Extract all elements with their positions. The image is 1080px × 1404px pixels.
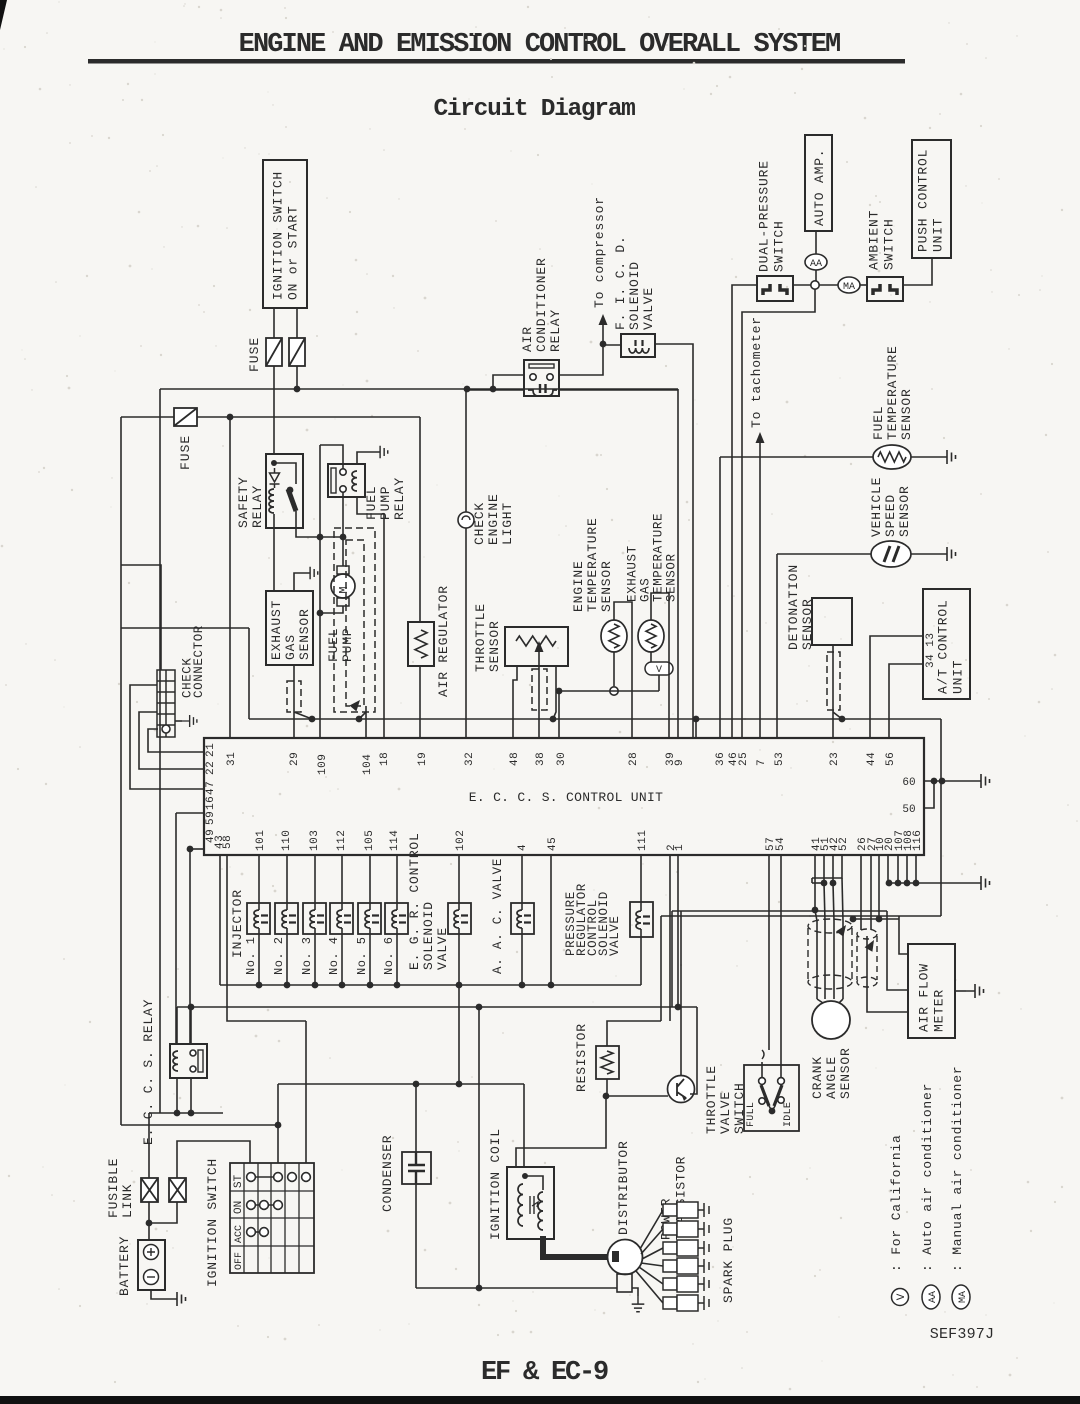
fusible link 1 <box>141 1178 158 1202</box>
wire fuel temp to ground <box>911 456 938 458</box>
wire fuse1 to safety relay <box>273 366 275 454</box>
exhaust temp sensor <box>638 620 664 652</box>
junction <box>693 716 700 723</box>
svg-text:30: 30 <box>556 752 568 766</box>
wire throttle L to pin 48 <box>513 666 517 738</box>
exhaust gas sensor box <box>266 591 313 665</box>
wire y1125 <box>121 1124 278 1126</box>
svg-text:112: 112 <box>336 830 348 851</box>
svg-text:IGNITION SWITCH: IGNITION SWITCH <box>205 1158 220 1287</box>
svg-text:TEMPERATURE: TEMPERATURE <box>885 345 900 440</box>
svg-text:AIR: AIR <box>520 326 535 352</box>
svg-text:PUSH CONTROL: PUSH CONTROL <box>916 149 931 252</box>
fusible link 2 <box>169 1178 186 1202</box>
svg-text:Circuit Diagram: Circuit Diagram <box>433 96 635 123</box>
crank wire <box>833 921 835 999</box>
wire injector to bus <box>258 928 260 985</box>
wire pin54 to tvs <box>780 855 782 1078</box>
pin42 into shield <box>833 883 834 921</box>
svg-text:ENGINE AND EMISSION CONTROL OV: ENGINE AND EMISSION CONTROL OVERALL SYST… <box>239 30 840 60</box>
junction <box>339 982 346 989</box>
node <box>530 374 536 380</box>
wire y1288 <box>416 1287 617 1289</box>
wire CEL to pin 32 <box>465 528 467 738</box>
svg-text:CRANK: CRANK <box>810 1056 825 1099</box>
ignition switch ON or START box <box>263 160 307 308</box>
wire node to pin 25 <box>742 289 815 738</box>
wire AFM ground <box>955 990 966 992</box>
wire relay bottom R <box>190 1078 192 1113</box>
svg-text:ON or START: ON or START <box>286 205 301 300</box>
coil inner link <box>525 1176 543 1190</box>
wire MA to ambient <box>860 284 867 286</box>
tvs left lead <box>761 1062 763 1078</box>
pin drop x907 <box>906 855 908 883</box>
tvs arms <box>761 1085 782 1106</box>
tvs squiggle <box>762 1050 764 1059</box>
svg-text:54: 54 <box>775 837 787 851</box>
ground vss <box>938 547 956 561</box>
svg-text:103: 103 <box>309 830 321 851</box>
distributor base <box>617 1274 632 1292</box>
AAC coil <box>517 910 522 928</box>
resistor box <box>596 1046 619 1079</box>
coil secondary <box>538 1192 543 1230</box>
wire link2 join <box>149 1202 177 1223</box>
spark plug 4 <box>663 1258 709 1274</box>
svg-text:23: 23 <box>829 752 841 766</box>
spark plug 3 <box>663 1240 709 1256</box>
pin52 join <box>811 878 813 883</box>
wire engine temp bottom <box>613 652 615 686</box>
scan corner mark <box>0 0 7 30</box>
wire to transistor base <box>606 1095 668 1097</box>
junction <box>550 716 557 723</box>
junction <box>812 907 819 914</box>
open node <box>811 281 819 289</box>
vehicle speed sensor <box>871 541 911 567</box>
svg-text:DISTRIBUTOR: DISTRIBUTOR <box>616 1140 631 1235</box>
svg-text:ON: ON <box>233 1201 245 1214</box>
svg-text:9: 9 <box>674 759 686 766</box>
junction <box>456 982 463 989</box>
svg-text:MA: MA <box>958 1291 969 1303</box>
crank shield cylinder <box>808 919 852 989</box>
wire pin52 jog <box>812 855 842 878</box>
node y691 <box>610 687 618 695</box>
junction <box>464 386 471 393</box>
safety relay inner wire <box>274 463 296 484</box>
ground AFM <box>966 984 984 998</box>
node <box>190 1050 196 1056</box>
wire ac relay to FICD node <box>559 344 603 375</box>
wire pin41 drop <box>814 855 816 910</box>
bus B+ y389 <box>160 388 678 390</box>
svg-text:111: 111 <box>637 830 649 851</box>
crank angle sensor body <box>812 1001 850 1039</box>
contact <box>247 1173 256 1182</box>
pin drop x898 <box>897 855 899 883</box>
legend V circle <box>892 1289 909 1306</box>
wire pin 59 <box>176 812 204 814</box>
svg-text:EF & EC-9: EF & EC-9 <box>481 1358 608 1388</box>
engine temp resistor <box>609 624 619 648</box>
pin drop x916 <box>915 855 917 883</box>
riser x249 <box>248 628 250 719</box>
junction <box>522 1173 528 1179</box>
wire condenser down <box>415 1184 417 1288</box>
wire collector up x682 <box>680 911 682 1075</box>
pr coil <box>636 911 641 929</box>
junction <box>548 982 555 989</box>
fuel pump terminal top <box>337 566 349 574</box>
wire y916b <box>899 915 941 917</box>
svg-text:CHECK: CHECK <box>472 502 487 545</box>
junction <box>188 1004 195 1011</box>
contact <box>288 1173 297 1182</box>
ground EGS <box>302 567 318 580</box>
wire pin 53 to vss <box>777 553 871 555</box>
throttle pot resistor <box>516 636 556 646</box>
ECCS relay box <box>170 1044 207 1078</box>
wire battery to ground <box>151 1290 168 1299</box>
svg-text:102: 102 <box>455 830 467 851</box>
fuel pump bottom lead <box>321 606 343 613</box>
detonation sensor box <box>812 598 852 645</box>
wire bus to CEL <box>465 389 467 512</box>
spark plug 6 <box>663 1295 709 1311</box>
junction <box>490 386 497 393</box>
svg-text:RESISTOR: RESISTOR <box>574 1023 589 1092</box>
pin drop x888 <box>887 855 889 883</box>
wire cc to pin 47 <box>130 685 204 789</box>
stub pin x696 <box>695 719 697 738</box>
spark plug 5 <box>663 1276 709 1292</box>
svg-text:ACC: ACC <box>234 1225 245 1243</box>
wire <box>273 308 275 338</box>
wire to fuel pump <box>342 537 344 566</box>
junction <box>904 880 911 887</box>
tvs common <box>769 1106 775 1111</box>
air flow meter box <box>908 944 955 1038</box>
wire x941 down <box>940 719 942 916</box>
crank taper <box>817 999 823 1003</box>
wire dist to ground <box>632 1288 638 1296</box>
plug wire 2 <box>641 1229 663 1254</box>
wire node to FICD <box>603 344 621 346</box>
wire relay top R <box>190 1007 192 1044</box>
svg-text:110: 110 <box>281 830 293 851</box>
junction <box>146 1220 153 1227</box>
trunk x160 <box>159 389 161 1113</box>
svg-text:A. A. C. VALVE: A. A. C. VALVE <box>491 858 505 974</box>
fuel pump terminal bottom <box>337 598 349 606</box>
shield detonation <box>827 652 840 710</box>
wire ac relay bottom to bus <box>467 389 524 391</box>
svg-text:THROTTLE: THROTTLE <box>704 1065 719 1134</box>
crank wire <box>842 921 844 999</box>
contact <box>274 1173 283 1182</box>
svg-text:SENSOR: SENSOR <box>487 620 502 672</box>
ac relay contact bar <box>529 364 554 368</box>
contact <box>274 1201 283 1210</box>
svg-text:DETONATION: DETONATION <box>786 564 801 650</box>
svg-text:SPEED: SPEED <box>883 494 898 537</box>
junction <box>456 1081 463 1088</box>
node <box>778 1097 784 1103</box>
EGR coil <box>454 910 459 928</box>
svg-text:RELAY: RELAY <box>548 309 563 352</box>
junction <box>187 846 194 853</box>
fuse F3 <box>174 408 197 426</box>
svg-text:SENSOR: SENSOR <box>838 1047 853 1099</box>
crank taper <box>839 999 843 1003</box>
EGS bottom lead to pin 29 <box>293 665 295 738</box>
wire fp relay top contact <box>320 445 343 469</box>
svg-text:SPARK PLUG: SPARK PLUG <box>721 1217 736 1303</box>
junction <box>356 716 363 723</box>
svg-text:47: 47 <box>205 781 217 795</box>
svg-text:No. 4: No. 4 <box>327 936 341 975</box>
plug wire 1 <box>640 1210 663 1249</box>
junction <box>769 1108 776 1115</box>
svg-text:109: 109 <box>317 754 329 775</box>
bottom scan bar <box>0 1396 1080 1404</box>
contact <box>247 1201 256 1210</box>
junction <box>367 982 374 989</box>
svg-text:58: 58 <box>222 835 234 849</box>
wire injector to bus <box>314 928 316 985</box>
svg-text:: For California: : For California <box>889 1134 904 1272</box>
svg-text:A/T CONTROL: A/T CONTROL <box>936 599 951 694</box>
svg-text:RELAY: RELAY <box>392 477 407 520</box>
svg-text:PUMP: PUMP <box>378 486 393 520</box>
svg-text:E. G. R. CONTROL: E. G. R. CONTROL <box>407 832 422 970</box>
contact link ON <box>251 1204 278 1206</box>
wire auto amp to AA <box>815 231 817 254</box>
junction <box>939 778 946 785</box>
junction <box>340 534 347 541</box>
wire pin111 to PR valve <box>640 855 642 911</box>
wire link2 to IGN switch <box>177 1141 250 1178</box>
injector No. 5 <box>358 903 381 934</box>
svg-text:V: V <box>896 1293 908 1300</box>
EGS shield <box>287 681 301 712</box>
svg-text:101: 101 <box>255 830 267 851</box>
contact <box>247 1228 256 1237</box>
wire y1007 <box>177 1006 697 1008</box>
HT lead thick <box>543 1236 608 1257</box>
ground bus left ext <box>812 882 824 884</box>
pin52 into shield <box>842 878 843 921</box>
svg-text:THROTTLE: THROTTLE <box>473 603 488 672</box>
EGS jog to bus <box>294 712 312 719</box>
fuel temperature sensor <box>873 445 911 469</box>
svg-text:1: 1 <box>674 844 686 851</box>
svg-text:EXHAUST: EXHAUST <box>626 545 640 602</box>
crank shield arrow <box>836 922 850 936</box>
air regulator resistor <box>415 630 427 658</box>
fuel pump relay box <box>328 464 365 497</box>
wire cc ground <box>175 720 182 722</box>
wire y1113 <box>149 1112 223 1114</box>
svg-text:OFF: OFF <box>234 1252 245 1270</box>
wire col3 up <box>277 1084 279 1163</box>
condenser plates <box>408 1152 425 1184</box>
wire fuse F3 out <box>197 416 420 418</box>
fp relay bar <box>331 468 336 493</box>
svg-text:FUEL: FUEL <box>871 406 886 440</box>
svg-text:TEMPERATURE: TEMPERATURE <box>585 517 600 612</box>
svg-text:SWITCH: SWITCH <box>882 218 897 270</box>
wire AAC to bus <box>521 928 523 985</box>
wire pin51 drop <box>823 855 825 883</box>
svg-text:AA: AA <box>810 259 822 270</box>
injector No. 3 <box>303 903 326 934</box>
check connector contact <box>162 725 170 733</box>
legend AA oval <box>922 1285 940 1309</box>
injector coil <box>282 910 287 928</box>
junction <box>174 1110 181 1117</box>
svg-text:34 13: 34 13 <box>925 632 937 668</box>
fuel pump shield inner <box>346 540 364 706</box>
wire A/T pin13 to pin 44 <box>870 636 923 738</box>
wire engine temp to pin 28 <box>614 602 632 738</box>
wire node to MA <box>819 284 838 286</box>
spark plug 1 <box>663 1202 709 1218</box>
contact link ST <box>251 1176 278 1178</box>
junction <box>284 982 291 989</box>
contact <box>260 1228 269 1237</box>
junction <box>256 982 263 989</box>
svg-text:50: 50 <box>902 804 915 816</box>
svg-text:FUSE: FUSE <box>247 337 262 372</box>
wire y919 <box>853 918 899 920</box>
svg-text:114: 114 <box>389 830 401 851</box>
wire relay bottom L <box>176 1078 178 1113</box>
fuel pump shield outer <box>334 528 375 712</box>
wire safety relay to EGS <box>273 528 275 591</box>
junction <box>227 414 234 421</box>
wire x899 to AFM top <box>899 916 908 954</box>
battery box <box>138 1240 165 1290</box>
battery plus <box>144 1245 159 1260</box>
svg-text:No. 5: No. 5 <box>355 936 369 975</box>
svg-text:CONNECTOR: CONNECTOR <box>192 625 206 698</box>
wire exh temp to pin 39 <box>651 593 669 738</box>
MA symbol <box>838 277 860 293</box>
wire fp relay coil to pin 18 <box>357 497 384 738</box>
wire pin to injector <box>341 855 343 910</box>
contact <box>302 1173 311 1182</box>
wire shield2 to AFM <box>867 936 908 1012</box>
svg-text:To tachometer: To tachometer <box>749 316 764 428</box>
wire EGR to y1084 <box>458 928 460 1084</box>
wire pin27 drop <box>870 855 872 930</box>
ground fp relay <box>372 446 388 459</box>
ambient switch contacts <box>873 284 897 295</box>
wire cc to pin 22 <box>139 712 204 769</box>
wire ac relay to x678 <box>559 389 678 391</box>
wire fuse2 to bus <box>296 366 298 389</box>
svg-text:53: 53 <box>774 752 786 766</box>
svg-text:60: 60 <box>902 777 915 789</box>
ground y883 <box>972 876 990 890</box>
node <box>759 1078 766 1085</box>
arrow to compressor <box>599 314 608 325</box>
svg-text:SAFETY: SAFETY <box>236 476 251 528</box>
distributor rotor <box>612 1251 619 1262</box>
wire detonation lead <box>832 645 834 712</box>
junction <box>394 982 401 989</box>
wire injector to bus <box>341 928 343 985</box>
crank shield 2 <box>857 929 877 987</box>
coil primary <box>518 1184 523 1226</box>
wire pin 7 to tachometer <box>759 440 761 738</box>
ECCS control unit box <box>204 738 924 855</box>
fuse F2 <box>289 338 305 366</box>
air regulator box <box>408 622 434 666</box>
wire shield to pin 104 <box>365 706 367 738</box>
svg-text:BATTERY: BATTERY <box>117 1236 132 1296</box>
wire exh temp to V <box>650 652 652 662</box>
wire pin60 ground <box>924 780 972 782</box>
svg-text:GAS: GAS <box>283 634 298 660</box>
svg-text:No. 1: No. 1 <box>244 936 258 975</box>
plug wire 4 <box>641 1263 663 1266</box>
svg-text:CONDENSER: CONDENSER <box>380 1135 395 1212</box>
svg-text:FUEL: FUEL <box>364 486 379 520</box>
wire to ignition coil <box>516 1096 606 1167</box>
svg-text:MA: MA <box>843 282 855 293</box>
wire AA to node <box>815 270 817 281</box>
wire air regulator to pin 19 <box>419 666 421 738</box>
air conditioner relay <box>524 360 559 396</box>
svg-text:19: 19 <box>417 752 429 766</box>
throttle valve switch box <box>744 1065 799 1131</box>
svg-text:LINK: LINK <box>120 1184 135 1218</box>
eccs relay bar <box>198 1050 203 1072</box>
wire detonation jog <box>833 712 842 719</box>
svg-text:No. 2: No. 2 <box>272 936 286 975</box>
svg-text:F. I. C. D.: F. I. C. D. <box>613 235 628 330</box>
wire fp relay bottom contact <box>342 492 344 537</box>
svg-text:SENSOR: SENSOR <box>897 485 912 537</box>
junction <box>309 716 316 723</box>
junction <box>476 1004 483 1011</box>
node <box>190 1066 196 1072</box>
AAC valve <box>511 903 534 934</box>
injector coil <box>310 910 315 928</box>
wire pin to injector <box>314 855 316 910</box>
svg-text:VALVE: VALVE <box>718 1091 733 1134</box>
wire x479 <box>478 1007 480 1288</box>
wire pin to injector <box>369 855 371 910</box>
node <box>778 1078 785 1085</box>
bus injectors y985 <box>220 984 641 986</box>
safety relay arm <box>288 489 296 511</box>
junction <box>476 1285 483 1292</box>
node <box>547 374 553 380</box>
battery minus <box>144 1270 159 1285</box>
svg-text:LIGHT: LIGHT <box>500 502 515 545</box>
injector No. 4 <box>330 903 353 934</box>
svg-text:36: 36 <box>715 752 727 766</box>
wire to pin 23 <box>832 712 834 738</box>
wire FICD to pin 39 area <box>655 344 693 738</box>
junction <box>931 778 938 785</box>
legend MA oval <box>952 1285 970 1309</box>
